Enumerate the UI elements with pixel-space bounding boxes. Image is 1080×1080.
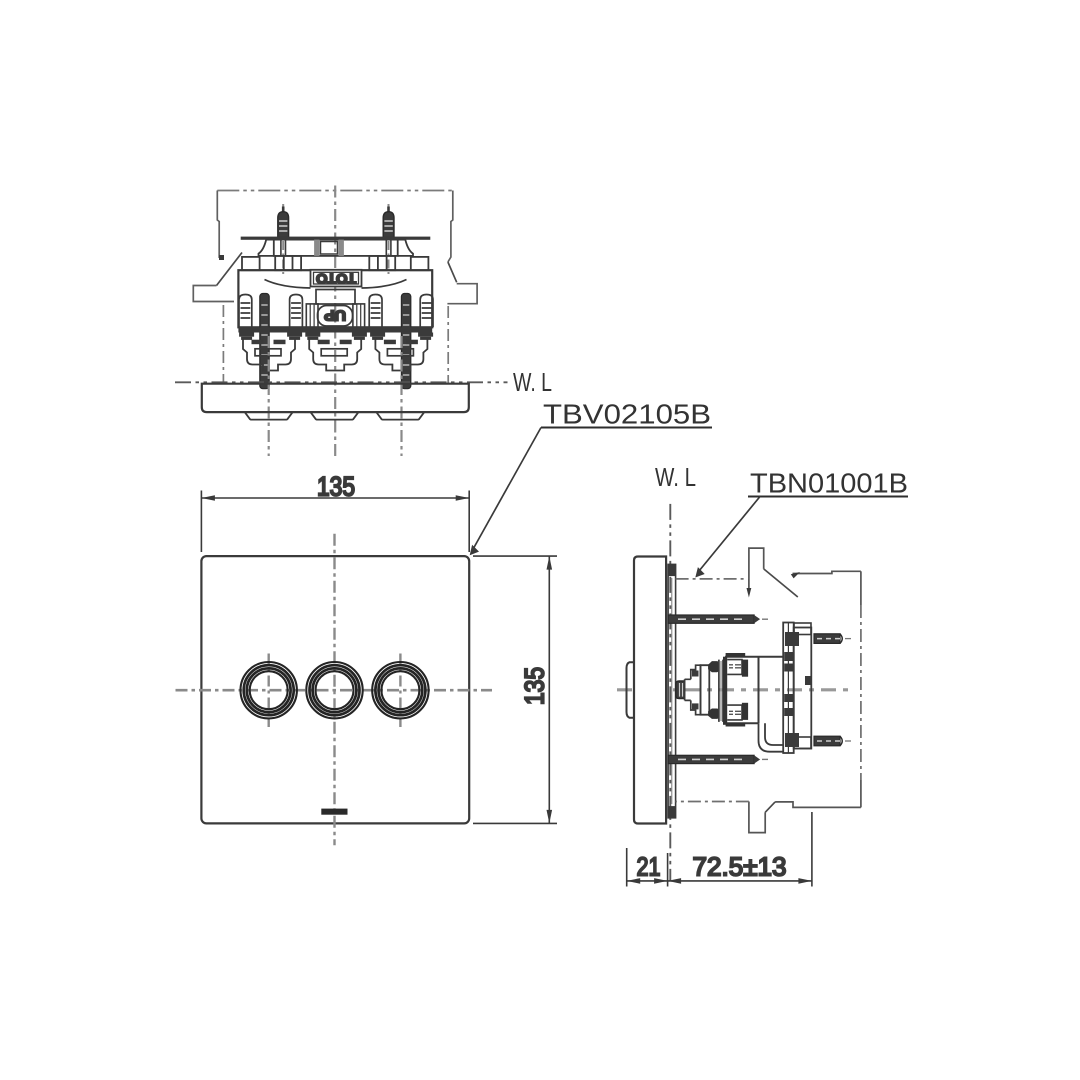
bracket bolt heads and lugs	[784, 632, 811, 747]
UP spline block left	[306, 304, 318, 327]
valve bevel knob bottom	[708, 709, 718, 719]
valve main block left wall	[723, 657, 727, 725]
nut square left	[275, 256, 301, 270]
housing phantom top chain	[676, 578, 747, 580]
valve washer strip	[719, 660, 723, 722]
plate TBV02105B front face	[201, 556, 469, 823]
arrow tick left	[219, 255, 224, 260]
valve main body box	[238, 270, 432, 327]
stud shank right below bar	[386, 240, 391, 256]
svg-text:21: 21	[637, 852, 661, 882]
button left center line	[268, 654, 270, 728]
dim arrows bottom	[627, 878, 812, 884]
svg-text:UP: UP	[324, 306, 346, 323]
bracket front plate	[783, 623, 794, 754]
wall recess phantom outline top	[217, 190, 452, 192]
UP spline block right	[353, 304, 365, 327]
TBV02105B underline	[541, 427, 712, 429]
wall recess right wing	[447, 284, 477, 304]
valve top bolt	[726, 653, 749, 677]
housing bottom break diagonal	[765, 802, 775, 812]
valve main block	[725, 657, 783, 724]
TBN01001B underline	[748, 496, 908, 498]
dimension 135 right: extension lines	[473, 556, 557, 823]
TBV leader line	[472, 428, 541, 552]
valve ring block	[701, 665, 710, 715]
housing notch top	[749, 548, 764, 579]
housing top right edge with arrow	[793, 571, 861, 573]
long rod top	[668, 615, 768, 623]
dimension 135 top: extension lines	[201, 491, 469, 553]
push button 2	[306, 662, 362, 718]
button bump center	[311, 412, 359, 420]
svg-text:TOTO: TOTO	[316, 271, 356, 286]
wall recess outline right	[448, 191, 453, 263]
nut tips row below bar	[239, 333, 433, 340]
TBN leader arrow	[695, 567, 704, 577]
housing bottom right edge	[775, 802, 861, 808]
housing right vertical	[860, 571, 862, 605]
mini bolt 1	[239, 295, 252, 328]
wall recess right lower chain	[447, 306, 449, 383]
UP window	[318, 306, 353, 327]
svg-text:72.5±13: 72.5±13	[693, 852, 787, 882]
mini bolt 3	[369, 295, 382, 328]
svg-text:TBN01001B: TBN01001B	[750, 468, 908, 499]
stud left	[278, 207, 289, 238]
housing top break diagonal	[764, 569, 798, 597]
side tab right	[411, 257, 429, 270]
mounting flange strip	[668, 564, 676, 817]
svg-text:W. L: W. L	[513, 367, 552, 397]
button center line left	[268, 336, 270, 456]
W.L chain line vertical	[669, 504, 671, 881]
side tab left	[242, 257, 260, 270]
lower flange bar	[238, 327, 432, 332]
svg-text:135: 135	[317, 472, 355, 502]
dim extension line right (72.5)	[811, 812, 813, 887]
bracket bolt top	[814, 634, 851, 644]
break line diagonal right	[448, 262, 457, 282]
dim extension line left (21)	[626, 848, 628, 887]
wall recess left wing	[193, 286, 234, 302]
button bump right	[376, 412, 424, 420]
valve stem neck	[685, 679, 691, 700]
bracket center hatched strips	[314, 240, 319, 256]
mini bolt 2	[290, 295, 303, 328]
stud center line right	[388, 204, 390, 274]
wall recess outline left	[217, 191, 219, 259]
nut square right	[369, 256, 395, 270]
valve stem tip	[676, 681, 685, 699]
neck block under logo	[316, 290, 355, 305]
dimension 135 right: arrows	[547, 556, 553, 823]
break line diagonal left	[217, 253, 243, 286]
outlet elbow	[759, 723, 784, 752]
svg-text:W. L: W. L	[655, 462, 696, 492]
button right center line	[399, 654, 401, 728]
leader arrow down at notch	[748, 579, 750, 589]
dimension 135 right: dim line	[548, 556, 550, 823]
housing phantom bottom chain	[676, 801, 749, 803]
dim extension line wall	[667, 853, 669, 887]
stud right	[383, 207, 394, 238]
dimension 135 top: dim line	[201, 497, 469, 499]
valve bevel knob top	[708, 661, 718, 672]
stud center line left	[282, 204, 284, 274]
mini bolt 4	[420, 295, 433, 328]
valve bonnet center	[309, 337, 361, 371]
stud shank left below bar	[281, 240, 286, 256]
long rod bottom	[668, 755, 768, 763]
bracket top arm	[794, 623, 811, 635]
TBN leader line	[699, 497, 760, 572]
push button 1	[241, 662, 297, 718]
valve bottom bolt	[726, 703, 749, 727]
plate section (edge view)	[202, 384, 469, 412]
svg-text:TBV02105B: TBV02105B	[543, 399, 711, 430]
button bump side	[627, 662, 635, 718]
valve bonnet left	[243, 337, 295, 371]
valve bonnet right	[375, 337, 427, 371]
TOTO logo plate	[311, 270, 362, 287]
W.L line top view	[175, 381, 508, 383]
center line horizontal	[176, 689, 493, 692]
button bump left	[245, 412, 293, 420]
cover curve left	[265, 280, 311, 289]
plate side (TBV02105B)	[634, 557, 666, 824]
bracket back plate	[794, 628, 812, 749]
bottom indicator mark	[321, 809, 347, 815]
housing notch bottom	[749, 802, 765, 833]
push button 3	[372, 662, 428, 718]
bracket left cap	[259, 240, 274, 256]
bracket bolt bottom	[814, 736, 851, 746]
main vertical center line	[334, 186, 336, 457]
svg-text:135: 135	[520, 667, 550, 705]
center line vertical	[333, 534, 335, 846]
main axis center line	[617, 688, 849, 691]
valve step block with tabs	[691, 665, 701, 715]
long rod left (to wall)	[260, 294, 269, 389]
top mounting bar	[241, 237, 431, 240]
wall recess left lower chain	[222, 305, 224, 383]
bracket bottom arm	[794, 737, 811, 749]
long rod right (to wall)	[401, 294, 410, 389]
dimension 135 top: arrows	[201, 495, 469, 501]
bracket mid block	[274, 240, 398, 256]
TBV leader arrow	[470, 545, 479, 556]
button center line right	[400, 336, 402, 456]
dimension line bottom	[627, 880, 812, 882]
bracket right cap	[398, 240, 413, 256]
cover curve right	[362, 280, 407, 289]
